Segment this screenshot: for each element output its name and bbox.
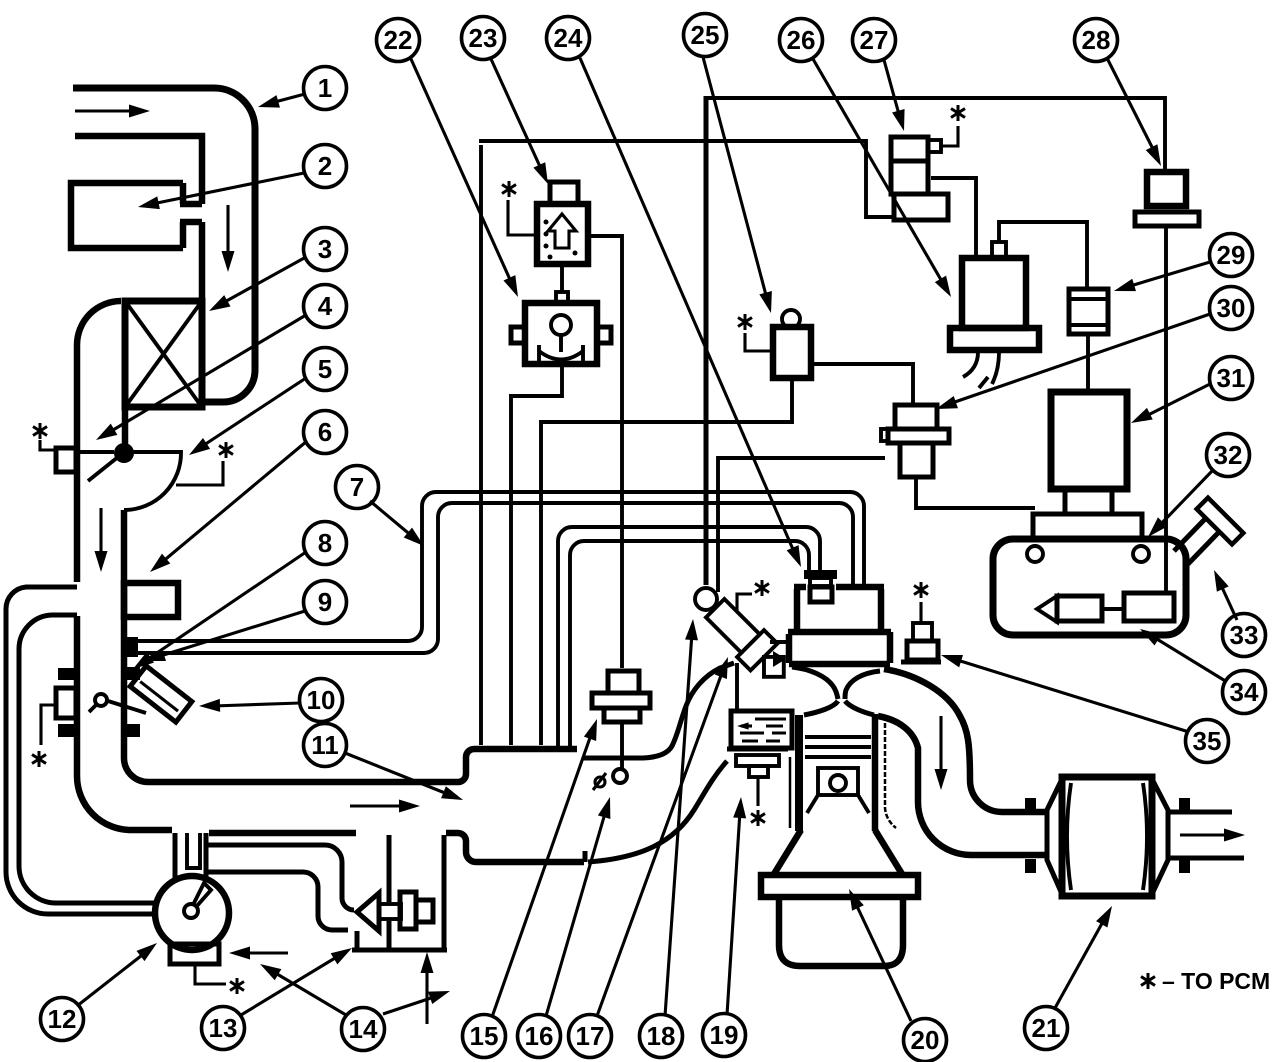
svg-text:10: 10: [307, 685, 336, 715]
fuel inlet arrow: [773, 651, 786, 667]
air temperature sensor dot 4: [114, 443, 134, 463]
egr valve base: [604, 708, 640, 722]
svg-text:34: 34: [1230, 677, 1259, 707]
venturi left funnel: [792, 667, 838, 699]
purge solenoid dots: [544, 220, 549, 225]
top border hose outer: [706, 98, 1165, 170]
charcoal canister 31: [1051, 392, 1127, 489]
svg-text:28: 28: [1082, 25, 1111, 55]
leader 6: [161, 441, 307, 563]
flow arrow into pump base: [246, 951, 288, 954]
leader 19: [727, 811, 740, 1015]
callout 29: [1210, 234, 1253, 277]
svg-text:9: 9: [318, 587, 332, 617]
callout 14: [342, 1008, 385, 1051]
hose 27 to 26: [931, 178, 976, 256]
exhaust manifold inner wall: [878, 716, 1048, 855]
leader 27: [884, 60, 900, 118]
egr valve flange: [592, 693, 650, 708]
callout 8: [304, 522, 347, 565]
leader 4: [108, 315, 306, 433]
purge solenoid 23 body: [537, 204, 588, 264]
coil pigtails: [963, 352, 999, 384]
hose from map sensor down: [541, 378, 792, 745]
leader 28: [1107, 58, 1155, 153]
star pcm (vacuum motor): [33, 423, 47, 439]
fuel vapor valve 28: [1147, 172, 1186, 206]
leader 14b: [383, 996, 437, 1014]
leader 32: [1158, 470, 1213, 527]
svg-text:31: 31: [1217, 363, 1246, 393]
cylinder liner line: [885, 716, 896, 828]
carburetor body: [797, 589, 881, 630]
leader 9: [157, 611, 305, 657]
svg-text:29: 29: [1217, 240, 1246, 270]
leader 30: [949, 314, 1210, 404]
vacuum reducer flange: [888, 429, 949, 443]
star pcm (regulator): [941, 126, 958, 146]
star pcm (map): [738, 314, 752, 330]
regulator base: [894, 194, 948, 220]
star pcm (door): [219, 442, 233, 458]
hose pair 7 inner: [131, 503, 853, 653]
solenoid stem: [560, 264, 564, 292]
gasket tab: [58, 668, 74, 680]
svg-text:35: 35: [1193, 726, 1222, 756]
svg-text:25: 25: [691, 20, 720, 50]
flow arrow duct down: [99, 508, 102, 558]
carb top fitting bar: [804, 570, 837, 579]
air pump inlet neck: [175, 833, 206, 878]
check valve 13 (triangle): [357, 893, 379, 931]
hose filter to canister: [1086, 334, 1090, 392]
callout 31: [1210, 357, 1253, 400]
leader 15: [492, 732, 592, 1017]
egr stem: [620, 722, 624, 768]
tvs left tab: [511, 327, 525, 343]
fuel vapor filter 29: [1069, 289, 1108, 334]
fuel pump 34 (in tank): [1037, 596, 1057, 622]
air pump suction hose inner: [19, 615, 157, 903]
callout 21: [1025, 1007, 1068, 1050]
engine block flare: [774, 830, 902, 874]
coil base: [950, 328, 1039, 350]
vacuum motor 4 (square on wall): [56, 448, 76, 472]
valve line: [789, 757, 792, 828]
callout 4: [304, 285, 347, 328]
oil pan body: [779, 897, 903, 966]
main duct bottom wall segments: [209, 833, 584, 862]
leader 23: [491, 59, 542, 171]
star pcm (tps): [41, 705, 56, 745]
throttle body outer wall lower: [77, 616, 172, 830]
leader 26: [813, 59, 944, 285]
leader 10: [213, 703, 300, 706]
exhaust manifold outer wall: [884, 669, 1048, 812]
converter outlet pipe: [1168, 812, 1244, 858]
intake runner lower wall: [588, 761, 727, 862]
carburetor top edge: [794, 584, 884, 591]
hose from solenoid 23 down: [511, 364, 562, 745]
svg-text:5: 5: [318, 354, 332, 384]
svg-text:26: 26: [787, 25, 816, 55]
vacuum regulator 27 body: [891, 137, 928, 161]
leader 2: [152, 173, 304, 204]
callout 35: [1186, 720, 1229, 763]
fuel tank 33: [993, 539, 1186, 635]
converter right cone: [1152, 779, 1168, 894]
piston rings: [805, 737, 871, 757]
door flap line: [88, 453, 123, 481]
float bowl top: [788, 629, 891, 636]
callout 12: [41, 998, 84, 1041]
wrist pin: [830, 775, 846, 791]
svg-text:15: 15: [470, 1021, 499, 1051]
wall below filter: [122, 407, 129, 444]
leader 20: [855, 902, 911, 1021]
flow arrow in manifold: [350, 804, 406, 807]
filler neck: [1174, 519, 1218, 564]
snorkel mouth stubs: [180, 204, 202, 222]
leader 7: [370, 501, 413, 537]
callout 7: [336, 466, 379, 509]
air injection nozzle: [702, 595, 797, 690]
coil neck: [992, 242, 1006, 258]
gasket tab: [58, 724, 74, 737]
svg-text:13: 13: [209, 1013, 238, 1043]
leader 33: [1220, 583, 1237, 620]
backpressure fitting 16: [613, 769, 627, 783]
leader 13: [241, 955, 340, 1015]
svg-text:32: 32: [1214, 440, 1243, 470]
leader 14a: [272, 971, 346, 1015]
callout 19: [703, 1014, 746, 1057]
fuel inlet line: [770, 640, 789, 644]
cylinder walls: [795, 715, 803, 831]
plenum notch: [583, 851, 588, 862]
callout 1: [304, 67, 347, 110]
svg-text:4: 4: [318, 291, 333, 321]
svg-text:21: 21: [1032, 1013, 1061, 1043]
svg-text:12: 12: [48, 1004, 77, 1034]
hose map to reducer: [811, 364, 913, 403]
thick hose top border to injection: [704, 96, 709, 585]
svg-text:23: 23: [469, 23, 498, 53]
tvs inner symbol: [551, 315, 571, 335]
flow arrow into check valve: [425, 966, 428, 1024]
gasket tab: [124, 667, 140, 680]
heat riser stem: [756, 777, 759, 806]
leader 21: [1055, 918, 1105, 1008]
callout 18: [640, 1015, 683, 1058]
air intake duct 1 (outer wall): [73, 88, 255, 402]
svg-text:24: 24: [554, 23, 583, 53]
leader 8: [145, 552, 306, 661]
svg-text:8: 8: [318, 528, 332, 558]
leader 34: [1152, 636, 1227, 682]
flow arrow intake: [75, 109, 136, 112]
venturi right funnel: [845, 671, 880, 699]
oxygen sensor 35: [919, 602, 922, 623]
svg-text:27: 27: [860, 25, 889, 55]
callout 15: [463, 1015, 506, 1058]
air filter element 3: [125, 301, 202, 407]
air hose pump to check valve outer: [208, 845, 354, 910]
vacuum reducer 30 top: [895, 405, 937, 429]
converter left cone: [1047, 779, 1062, 894]
purge solenoid arrow symbol: [548, 214, 576, 248]
callout 10: [300, 679, 343, 722]
carb air horn port: [810, 587, 832, 602]
svg-text:1: 1: [318, 73, 332, 103]
pipe tabs: [1025, 798, 1036, 811]
piston skirt: [807, 795, 869, 813]
throttle body inner wall: [124, 510, 577, 782]
flow arrow exhaust out: [1180, 833, 1228, 836]
float bowl sides and bottom: [789, 632, 890, 664]
air hose pump to check valve inner: [208, 872, 348, 930]
air intake duct inner wall / channel: [75, 136, 202, 204]
canister pedestal: [1065, 489, 1112, 514]
piston pin boss: [818, 768, 858, 795]
tvs valve 22 body: [525, 303, 597, 364]
long vertical hose from border: [479, 145, 483, 745]
leader 25: [703, 57, 767, 299]
legend star: [1141, 973, 1155, 989]
leader 11: [345, 753, 450, 795]
svg-text:17: 17: [576, 1021, 605, 1051]
svg-text:18: 18: [647, 1021, 676, 1051]
venturi right flare: [845, 701, 874, 715]
check valve housing walls: [352, 835, 447, 950]
sensor link line: [76, 450, 114, 454]
throttle shaft: [108, 701, 146, 713]
heat riser flange: [727, 747, 788, 752]
hose junction blob: [126, 637, 138, 657]
callout 11: [304, 724, 347, 767]
throttle plate 10: [130, 666, 192, 722]
callout 2: [304, 145, 347, 188]
check valve nut: [416, 900, 433, 922]
heat riser box 19: [731, 711, 792, 748]
heat box left edge extension: [735, 663, 739, 712]
svg-text:19: 19: [710, 1020, 739, 1050]
air cleaner housing left wrap: [77, 301, 121, 582]
svg-text:2: 2: [318, 151, 332, 181]
venturi left flare: [804, 701, 838, 715]
catalytic converter 21 body: [1062, 777, 1152, 896]
hose 26 to filter: [999, 222, 1087, 289]
svg-text:7: 7: [350, 472, 364, 502]
purge solenoid 23 top: [550, 182, 578, 204]
leader 16: [546, 810, 606, 1016]
svg-text:11: 11: [311, 730, 339, 760]
gasket tab: [124, 724, 140, 737]
check valve bolt: [379, 904, 401, 919]
svg-text:16: 16: [525, 1021, 554, 1051]
map sensor 25: [773, 327, 811, 378]
star pcm (heat riser): [751, 810, 765, 826]
callout 34: [1223, 671, 1266, 714]
svg-text:33: 33: [1230, 620, 1259, 650]
egr valve 15 top: [608, 671, 639, 693]
callout 33: [1223, 614, 1266, 657]
plenum top edge and runner upper wall: [583, 663, 734, 758]
ported vacuum hose upper: [558, 527, 820, 747]
callout 6: [304, 411, 347, 454]
callout 20: [904, 1019, 947, 1062]
ported vacuum hose lower: [570, 541, 809, 747]
star pcm (injection): [737, 594, 752, 610]
throttle shaft fitting: [95, 694, 107, 706]
callout 24: [547, 17, 590, 60]
svg-text:20: 20: [911, 1025, 940, 1055]
oil pan flange 20: [761, 875, 918, 897]
flow arrow exhaust down: [939, 716, 942, 776]
callout 13: [202, 1007, 245, 1050]
svg-text:22: 22: [384, 25, 413, 55]
air pump 12 body: [155, 876, 229, 950]
wire channel wall lower: [199, 222, 206, 300]
hose pair 7 outer: [128, 492, 864, 641]
star pcm (air pump): [195, 964, 226, 984]
hose from reducer to injection: [718, 458, 885, 592]
callout 27: [853, 19, 896, 62]
hose reducer to canister base: [916, 477, 1035, 508]
leader 24: [580, 58, 795, 554]
tank fitting right 32: [1133, 546, 1149, 562]
callout 25: [684, 14, 727, 57]
hose 28 to tank: [1164, 226, 1168, 592]
svg-text:– TO PCM: – TO PCM: [1162, 968, 1270, 994]
callout 30: [1210, 287, 1253, 330]
leader 35: [954, 659, 1189, 732]
callout 28: [1075, 19, 1118, 62]
hose solenoid23 to egr: [588, 236, 622, 668]
filler cap: [1197, 498, 1244, 545]
leader 12: [77, 952, 146, 1006]
air injection check ball 18: [695, 588, 717, 610]
callout 23: [462, 17, 505, 60]
ignition coil 26 body: [962, 258, 1026, 328]
callout 22: [377, 19, 420, 62]
regulator side port: [928, 140, 941, 152]
callout 17: [569, 1015, 612, 1058]
svg-text:3: 3: [318, 234, 332, 264]
flow arrow channel down: [226, 205, 229, 258]
leader 22: [411, 59, 512, 284]
svg-text:30: 30: [1217, 293, 1246, 323]
callout 16: [518, 1015, 561, 1058]
air pump base: [170, 944, 219, 964]
air control door arc 5: [124, 452, 181, 510]
callout 3: [304, 228, 347, 271]
callout 32: [1207, 434, 1250, 477]
air cleaner snorkel box 2: [71, 183, 183, 248]
svg-text:14: 14: [349, 1014, 378, 1044]
tank fitting left: [1027, 546, 1043, 562]
vacuum reducer body: [900, 443, 933, 477]
idle air box 6: [124, 583, 178, 617]
air pump suction hose outer: [6, 587, 158, 914]
throttle position sensor 9 (square): [56, 688, 76, 718]
leader 29: [1127, 262, 1210, 287]
callout 26: [780, 19, 823, 62]
tvs right tab: [597, 327, 611, 343]
air pump rotor: [184, 904, 198, 918]
leader 5: [201, 378, 306, 447]
inner border hose with bracket to 27: [481, 141, 894, 217]
leader 31: [1144, 384, 1210, 417]
svg-text:6: 6: [318, 417, 332, 447]
leader 17: [597, 670, 723, 1016]
check valve head: [400, 892, 416, 929]
callout 9: [304, 581, 347, 624]
leader 1: [271, 94, 305, 103]
leader 18: [665, 633, 692, 1016]
leader 3: [221, 257, 306, 304]
callout 5: [304, 348, 347, 391]
star pcm (purge solenoid): [502, 181, 516, 197]
